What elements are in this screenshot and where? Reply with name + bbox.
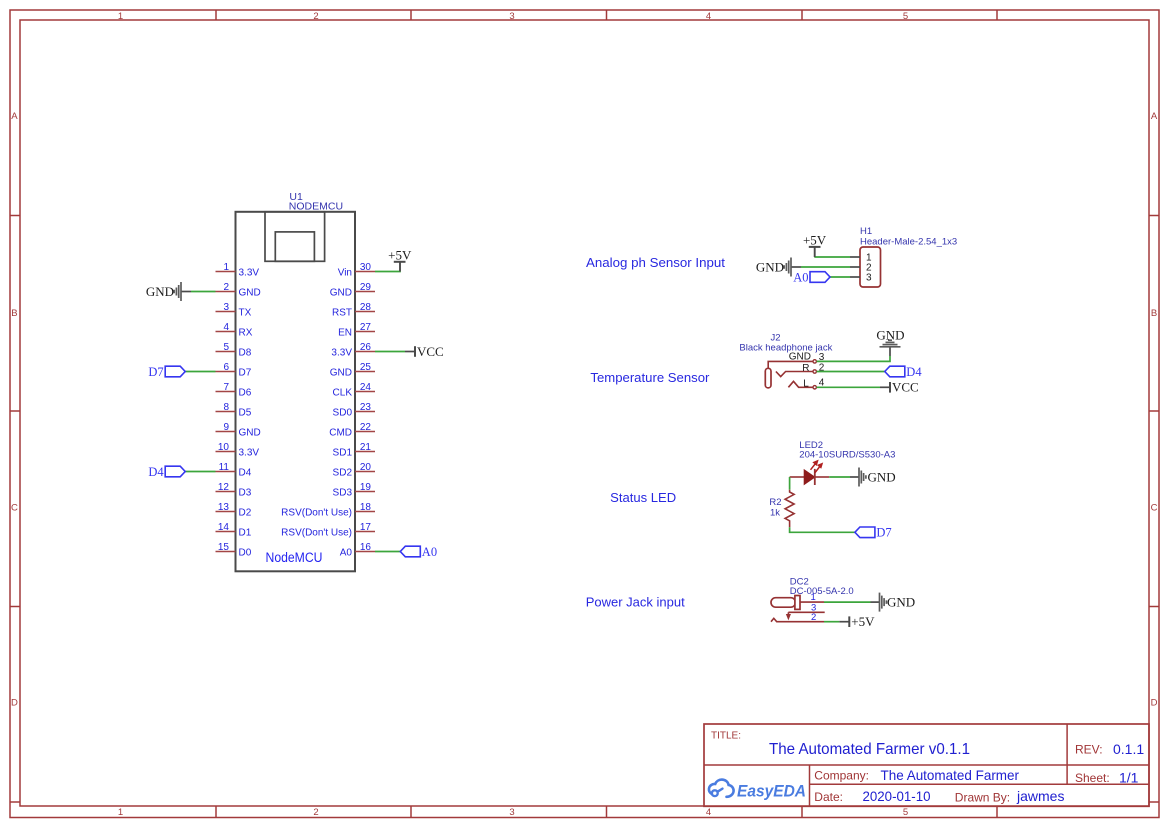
svg-text:D4: D4 [906,365,922,379]
svg-text:20: 20 [360,462,372,473]
svg-text:Date:: Date: [814,790,843,804]
wire GND to H1 pin 2 [801,266,850,268]
svg-text:Power Jack input: Power Jack input [586,595,685,610]
ground GND at DC2 pin 1 [871,593,916,612]
wire J2 pin 2 to D4 flag [817,371,885,373]
svg-text:3: 3 [509,807,514,818]
U1 pin 27 (EN) [338,322,375,339]
wire DC2 pin 2 to +5V [824,621,839,623]
svg-text:0.1.1: 0.1.1 [1113,741,1144,757]
power +5V at U1 pin 30 [388,247,412,271]
svg-text:A: A [11,111,18,122]
svg-text:D5: D5 [239,408,252,419]
svg-text:8: 8 [223,402,229,413]
svg-text:3: 3 [223,302,229,313]
svg-text:CLK: CLK [333,388,353,399]
svg-text:GND: GND [330,288,352,299]
svg-text:9: 9 [223,422,229,433]
resistor R2 1k [769,490,794,528]
U1 pin 25 (GND) [330,362,375,379]
U1 pin 1 (3.3V) [216,262,260,279]
svg-text:2: 2 [811,612,816,623]
U1 pin 12 (D3) [216,482,252,499]
svg-text:2: 2 [313,807,318,818]
svg-text:3.3V: 3.3V [239,448,260,459]
svg-text:A0: A0 [340,548,353,559]
svg-text:17: 17 [360,522,372,533]
U1 pin 7 (D6) [216,382,252,399]
U1 pin 3 (TX) [216,302,252,319]
svg-text:4: 4 [223,322,229,333]
wire LED2 cathode to GND [829,476,850,478]
svg-text:SD3: SD3 [333,488,353,499]
svg-text:15: 15 [218,542,230,553]
svg-text:GND: GND [239,428,261,439]
svg-text:16: 16 [360,542,372,553]
svg-text:21: 21 [360,442,372,453]
wire U1 pin 30 to +5V [375,271,401,273]
wire U1 pin 26 to VCC [375,351,405,353]
U1 pin 28 (RST) [332,302,375,319]
ground GND at LED2 cathode [850,468,896,487]
svg-text:GND: GND [146,284,174,299]
svg-text:R2: R2 [769,497,781,508]
svg-text:2: 2 [313,11,318,22]
U1 pin 15 (D0) [216,542,252,559]
svg-text:GND: GND [239,288,261,299]
svg-text:SD2: SD2 [333,468,353,479]
svg-text:28: 28 [360,302,372,313]
U1 pin 10 (3.3V) [216,442,260,459]
connector J2 Black headphone jack [739,333,832,390]
svg-text:B: B [11,308,17,319]
svg-text:GND: GND [756,260,784,275]
svg-text:3.3V: 3.3V [331,348,352,359]
svg-text:RST: RST [332,308,352,319]
svg-text:R: R [802,363,809,374]
svg-text:19: 19 [360,482,372,493]
svg-text:5: 5 [903,807,908,818]
connector DC2 DC-005-5A-2.0 [771,577,854,623]
section label: Power Jack input [586,595,685,610]
connector H1 Header-Male-2.54_1x3 [860,226,957,287]
svg-text:3: 3 [509,11,514,22]
svg-text:24: 24 [360,382,372,393]
U1 pin 2 (GND) [216,282,261,299]
svg-text:L: L [803,379,809,390]
svg-text:TX: TX [239,308,252,319]
svg-text:D: D [11,698,18,709]
svg-text:204-10SURD/S530-A3: 204-10SURD/S530-A3 [799,450,895,461]
svg-text:4: 4 [706,11,711,22]
svg-text:1: 1 [118,11,123,22]
svg-text:2020-01-10: 2020-01-10 [863,789,931,804]
svg-text:A0: A0 [422,545,437,559]
svg-text:VCC: VCC [892,380,919,395]
title block [704,724,1149,806]
U1 pin 21 (SD1) [333,442,375,459]
svg-text:D7: D7 [876,526,891,540]
wire R2 to D7 flag [790,527,855,532]
net flag A0 at H1 pin 3 [793,270,830,284]
U1 pin 8 (D5) [216,402,252,419]
U1 pin 9 (GND) [216,422,261,439]
svg-text:VCC: VCC [417,344,444,359]
wire U1 pin 11 to D4 flag [185,471,215,473]
wire U1 pin 2 to GND [191,291,216,293]
svg-text:C: C [11,503,18,514]
svg-text:1: 1 [811,592,816,603]
svg-text:7: 7 [223,382,229,393]
svg-text:Vin: Vin [338,268,352,279]
svg-text:18: 18 [360,502,372,513]
U1 pin 29 (GND) [330,282,375,299]
svg-text:D7: D7 [148,365,163,379]
svg-text:3: 3 [866,273,872,284]
svg-text:1: 1 [118,807,123,818]
svg-text:30: 30 [360,262,372,273]
U1 pin 13 (D2) [216,502,252,519]
svg-text:REV:: REV: [1075,743,1103,757]
svg-text:EasyEDA: EasyEDA [737,782,806,801]
svg-text:SD0: SD0 [333,408,353,419]
svg-text:+5V: +5V [803,232,827,247]
net flag D4 at U1 pin 11 [148,465,185,479]
svg-text:27: 27 [360,322,372,333]
svg-text:12: 12 [218,482,230,493]
svg-text:EN: EN [338,328,352,339]
svg-text:+5V: +5V [851,614,875,629]
power +5V at DC2 pin 2 [839,614,875,629]
net flag D7 at U1 pin 6 [148,365,185,379]
svg-text:29: 29 [360,282,372,293]
U1 pin 19 (SD3) [333,482,375,499]
svg-text:6: 6 [223,362,229,373]
svg-text:GND: GND [876,327,904,342]
EasyEDA logo [709,780,806,801]
svg-text:23: 23 [360,402,372,413]
wire DC2 pin 1 to GND [824,601,871,603]
svg-text:SD1: SD1 [333,448,353,459]
U1 pin 26 (3.3V) [331,342,375,359]
power +5V at H1 pin 1 [803,232,827,257]
U1 pin 20 (SD2) [333,462,375,479]
svg-text:D7: D7 [239,368,252,379]
U1 pin 17 (RSV(Don't Use)) [281,522,375,539]
U1 pin 23 (SD0) [333,402,375,419]
svg-text:jawmes: jawmes [1016,788,1064,804]
wire J2 pin 4 to VCC [817,386,880,388]
wire U1 pin 6 to D7 flag [185,371,215,373]
wire A0 flag to H1 pin 3 [830,276,850,278]
svg-text:D0: D0 [239,548,252,559]
svg-text:GND: GND [789,352,811,363]
net flag D7 at R2 [855,526,892,540]
svg-text:Company:: Company: [814,769,869,783]
svg-text:D4: D4 [148,465,164,479]
U1 pin 18 (RSV(Don't Use)) [281,502,375,519]
svg-text:RX: RX [239,328,253,339]
svg-text:A: A [1151,111,1158,122]
net flag D4 at J2 pin 2 [885,365,923,379]
svg-text:Sheet:: Sheet: [1075,771,1110,785]
svg-text:RSV(Don't Use): RSV(Don't Use) [281,508,352,519]
svg-text:5: 5 [903,11,908,22]
svg-text:NODEMCU: NODEMCU [289,201,343,213]
svg-text:2: 2 [223,282,229,293]
svg-text:GND: GND [887,595,915,610]
svg-text:GND: GND [330,368,352,379]
svg-text:3.3V: 3.3V [239,268,260,279]
wire +5V to H1 pin 1 [814,256,850,258]
svg-text:D6: D6 [239,388,252,399]
svg-text:D: D [1151,698,1158,709]
svg-text:+5V: +5V [388,247,412,262]
svg-text:10: 10 [218,442,230,453]
ground GND at U1 pin 2 [146,282,191,301]
U1 pin 16 (A0) [340,542,375,559]
U1 pin 5 (D8) [216,342,252,359]
svg-text:11: 11 [219,462,230,473]
svg-text:RSV(Don't Use): RSV(Don't Use) [281,528,352,539]
svg-text:B: B [1151,308,1157,319]
section label: Status LED [610,490,676,505]
svg-text:Status LED: Status LED [610,490,676,505]
svg-text:NodeMCU: NodeMCU [266,550,323,565]
U1 pin 30 (Vin) [338,262,375,279]
svg-text:4: 4 [706,807,711,818]
svg-text:1/1: 1/1 [1119,770,1139,786]
svg-text:The Automated Farmer v0.1.1: The Automated Farmer v0.1.1 [769,741,970,758]
svg-text:Analog ph Sensor Input: Analog ph Sensor Input [586,255,725,270]
svg-text:TITLE:: TITLE: [711,731,741,742]
IC U1 NODEMCU [236,191,356,571]
power VCC at J2 pin 4 [880,380,919,395]
section label: Temperature Sensor [590,370,710,385]
power VCC at U1 pin 26 [405,344,444,359]
svg-text:GND: GND [868,470,896,485]
H1 pin 1 [850,253,872,264]
H1 pin 2 [850,263,872,274]
svg-text:H1: H1 [860,226,872,237]
U1 pin 14 (D1) [216,522,252,539]
svg-text:Temperature Sensor: Temperature Sensor [590,370,710,385]
svg-text:5: 5 [223,342,229,353]
svg-text:Drawn By:: Drawn By: [955,791,1010,805]
svg-text:D4: D4 [239,468,252,479]
svg-text:22: 22 [360,422,372,433]
svg-text:26: 26 [360,342,372,353]
svg-text:D1: D1 [239,528,252,539]
svg-text:CMD: CMD [329,428,352,439]
U1 pin 11 (D4) [216,462,252,479]
section label: Analog ph Sensor Input [586,255,725,270]
LED LED2 204-10SURD/S530-A3 [790,440,896,485]
wire LED2 anode to R2 [789,477,791,490]
svg-text:14: 14 [218,522,230,533]
ground GND at H1 pin 2 [756,258,801,277]
svg-text:25: 25 [360,362,372,373]
U1 pin 24 (CLK) [333,382,375,399]
U1 pin 22 (CMD) [329,422,375,439]
svg-text:13: 13 [218,502,230,513]
net flag A0 at U1 pin 16 [400,545,437,559]
wire J2 pin 3 to GND [817,356,890,361]
svg-text:D8: D8 [239,348,252,359]
svg-text:1: 1 [223,262,229,273]
ground GND at J2 pin 3 [876,327,904,356]
svg-text:D2: D2 [239,508,252,519]
U1 pin 6 (D7) [216,362,252,379]
svg-text:D3: D3 [239,488,252,499]
svg-text:1k: 1k [770,508,780,519]
svg-text:C: C [1151,503,1158,514]
wire U1 pin 16 to A0 flag [375,551,400,553]
H1 pin 3 [850,273,872,284]
U1 pin 4 (RX) [216,322,253,339]
svg-text:The Automated Farmer: The Automated Farmer [881,767,1020,783]
svg-text:A0: A0 [793,270,808,284]
svg-text:Header-Male-2.54_1x3: Header-Male-2.54_1x3 [860,237,957,248]
